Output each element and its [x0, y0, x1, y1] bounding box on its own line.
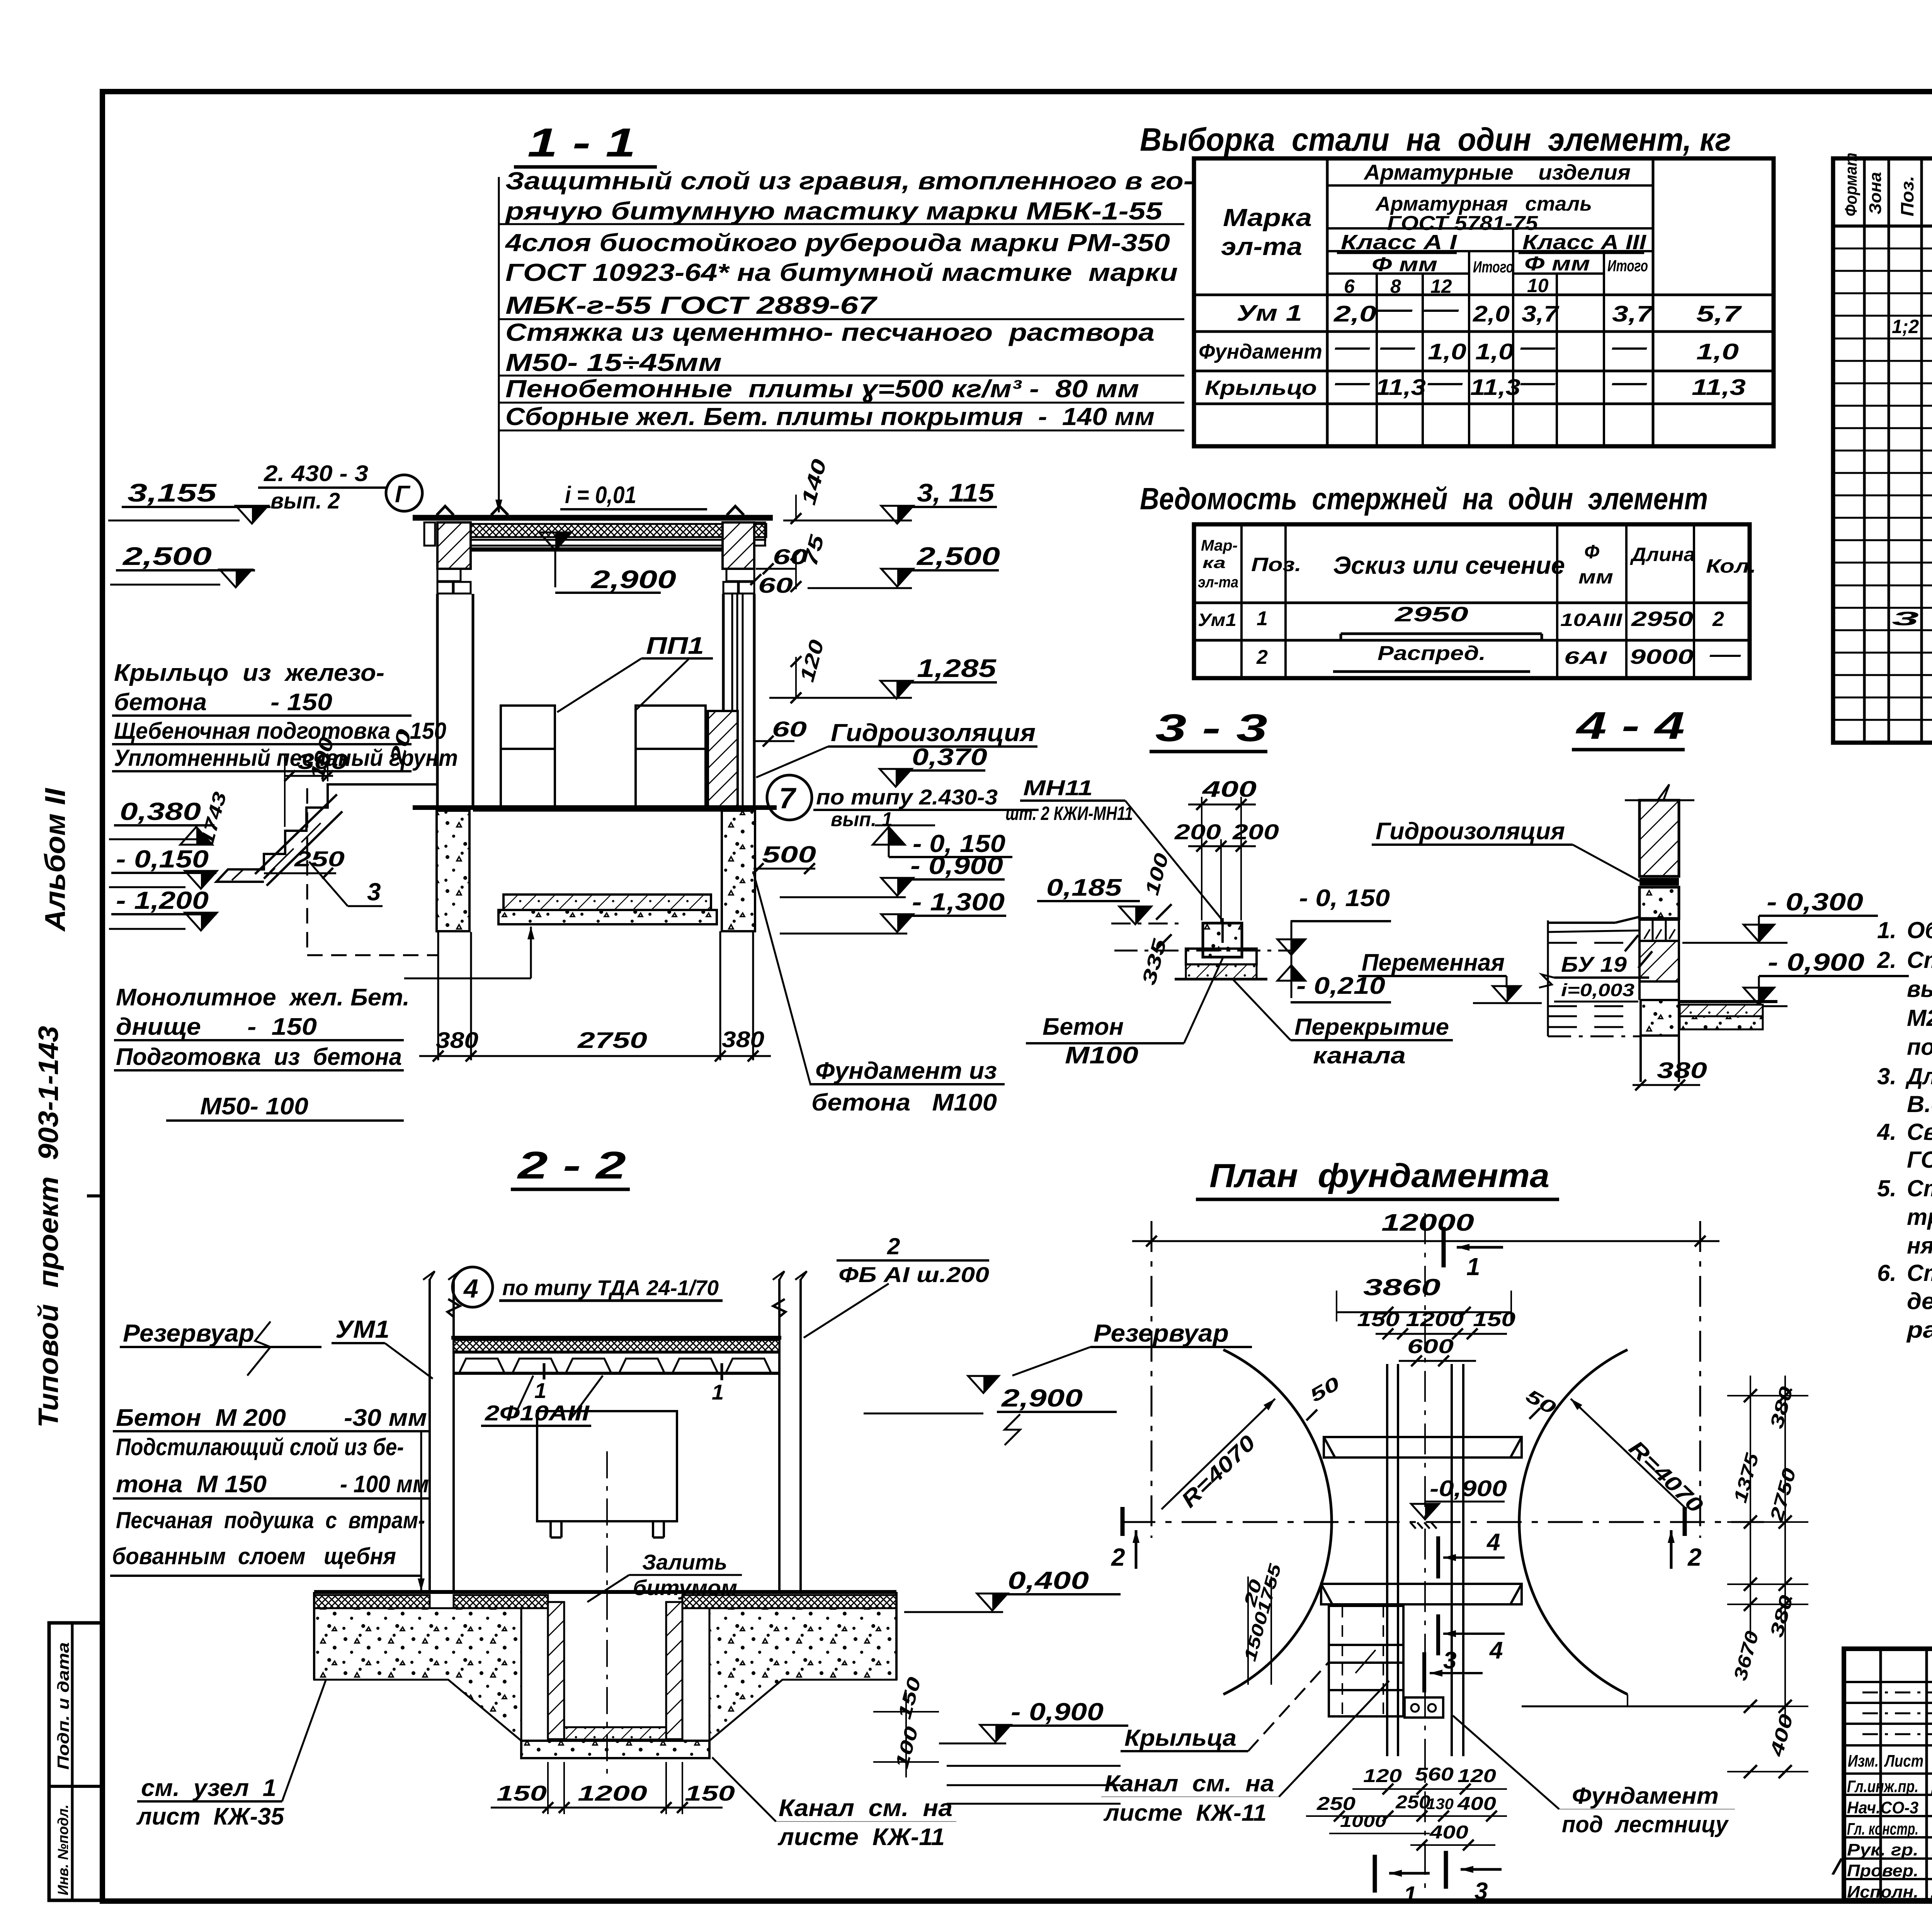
svg-text:- 0,300: - 0,300	[1767, 888, 1863, 916]
svg-text:Защитный слой из гравия, втопл: Защитный слой из гравия, втопленного в г…	[505, 167, 1193, 195]
elevation 2,900 (2-2)	[983, 1376, 999, 1393]
svg-text:120: 120	[1458, 1766, 1496, 1786]
svg-text:Монолитное жел. Бет.: Монолитное жел. Бет.	[116, 984, 410, 1011]
svg-text:листе КЖ-11: листе КЖ-11	[777, 1824, 945, 1850]
svg-text:Распред.: Распред.	[1378, 642, 1486, 665]
svg-text:выполнить из обыкновенного: выполнить из обыкновенного кирпича М75, …	[1907, 976, 1932, 1002]
svg-text:Нач.СО-3: Нач.СО-3	[1847, 1798, 1918, 1817]
svg-text:днище: днище	[116, 1014, 201, 1040]
svg-text:Фундамент из: Фундамент из	[815, 1058, 997, 1084]
svg-text:1: 1	[1403, 1882, 1417, 1908]
svg-text:0,185: 0,185	[1046, 874, 1122, 901]
svg-text:- 1,300: - 1,300	[912, 888, 1005, 916]
svg-text:—: —	[1423, 297, 1459, 322]
svg-text:2. 430 - 3: 2. 430 - 3	[264, 461, 368, 486]
node circle 7 with по типу 2.430-3	[767, 775, 812, 820]
right wall 1-1	[722, 594, 725, 806]
svg-text:4: 4	[463, 1274, 478, 1303]
svg-text:130: 130	[1427, 1796, 1454, 1813]
ribbed precast slabs	[454, 1351, 779, 1354]
svg-text:2,500: 2,500	[122, 542, 212, 570]
svg-text:2950: 2950	[1394, 603, 1468, 626]
svg-text:бованным слоем щебня: бованным слоем щебня	[112, 1543, 396, 1569]
right cornice (hatched)	[754, 522, 765, 546]
bottom slab 4-4 right	[1679, 1000, 1777, 1003]
svg-text:4слоя биостойкого рубероида ма: 4слоя биостойкого рубероида марки РМ-350	[505, 229, 1170, 257]
svg-text:3: 3	[1443, 1647, 1456, 1674]
svg-text:Лист: Лист	[1884, 1752, 1923, 1770]
svg-text:1.: 1.	[1877, 917, 1896, 943]
plan center line horizontal	[1121, 1521, 1764, 1523]
left ground edge	[313, 1592, 315, 1680]
svg-text:60: 60	[773, 544, 808, 569]
svg-text:1;2: 1;2	[1892, 316, 1919, 337]
svg-text:2: 2	[1712, 607, 1724, 631]
stairs foundation block	[1405, 1697, 1443, 1718]
svg-text:тона М 150: тона М 150	[116, 1471, 267, 1498]
svg-text:4 - 4: 4 - 4	[1575, 704, 1685, 747]
svg-text:Гл.инж.пр.: Гл.инж.пр.	[1847, 1777, 1918, 1796]
svg-text:- 0,150: - 0,150	[116, 845, 209, 873]
dash-dot marks in upper rows	[1862, 1692, 1932, 1694]
left wall 1-1	[436, 594, 439, 806]
waterproofing band (black)	[1639, 878, 1679, 886]
svg-text:Типовой проект 903-1-143: Типовой проект 903-1-143	[33, 1026, 64, 1428]
svg-text:План фундамента: План фундамента	[1209, 1157, 1549, 1194]
annotation leader vertical with arrow to roof	[498, 177, 500, 512]
svg-text:- 150: - 150	[247, 1014, 317, 1040]
svg-text:—: —	[1377, 297, 1413, 322]
svg-text:Сборные жел. Бет. плиты покрыт: Сборные жел. Бет. плиты покрытия - 140 м…	[505, 403, 1155, 430]
svg-text:по типу 2.430-3: по типу 2.430-3	[816, 785, 998, 809]
svg-text:М100: М100	[1065, 1042, 1138, 1069]
svg-text:150: 150	[1473, 1308, 1515, 1331]
svg-text:60: 60	[758, 573, 793, 597]
svg-text:600: 600	[1407, 1335, 1454, 1358]
floor concrete layer	[314, 1608, 521, 1741]
upper crossing slab	[1324, 1437, 1522, 1458]
embed block 3-3 (concrete)	[1203, 923, 1242, 957]
dashed excavation lines	[306, 788, 308, 955]
svg-text:Стальные конструкции окрасит: Стальные конструкции окрасить эмалью ПФ-…	[1907, 1175, 1932, 1201]
svg-text:Альбом II: Альбом II	[39, 787, 71, 932]
svg-text:Подстилающий слой из бе-: Подстилающий слой из бе-	[116, 1434, 404, 1461]
svg-text:4: 4	[1486, 1529, 1500, 1556]
svg-text:—: —	[1520, 370, 1556, 395]
svg-text:—: —	[1520, 335, 1556, 360]
svg-text:Стены камеры управления акку: Стены камеры управления аккумуляторных б…	[1907, 947, 1932, 973]
svg-text:11,3: 11,3	[1376, 375, 1426, 400]
svg-text:Итого: Итого	[1473, 258, 1514, 276]
svg-text:560: 560	[1415, 1764, 1454, 1785]
svg-text:Арматурные изделия: Арматурные изделия	[1363, 160, 1631, 184]
section marks bottom 1 and 3	[1373, 1855, 1377, 1893]
svg-text:подрезкой швов с внутренней: подрезкой швов с внутренней стороны клад…	[1907, 1034, 1932, 1060]
svg-text:деревянные изделия - масляной: деревянные изделия - масляной краской за…	[1907, 1288, 1932, 1314]
2-2 left wall	[429, 1279, 431, 1594]
svg-text:—: —	[1334, 335, 1370, 360]
svg-text:—: —	[1379, 335, 1415, 360]
small table horizontals	[1844, 1681, 1932, 1683]
svg-text:Фундамент: Фундамент	[1199, 340, 1322, 363]
svg-text:1000: 1000	[1340, 1812, 1387, 1831]
svg-text:—: —	[1334, 370, 1370, 395]
svg-text:БУ 19: БУ 19	[1561, 952, 1627, 976]
svg-text:—: —	[1427, 370, 1463, 395]
svg-text:0,370: 0,370	[912, 744, 987, 770]
svg-text:Г: Г	[395, 481, 411, 508]
hatched pier right interior	[708, 711, 738, 806]
svg-text:i=0,003: i=0,003	[1561, 980, 1635, 1000]
interior box right (tank support)	[636, 706, 706, 806]
svg-text:Щебеночная подготовка - 150: Щебеночная подготовка - 150	[114, 718, 446, 744]
svg-text:7: 7	[779, 782, 797, 815]
2-2 right wall	[778, 1279, 781, 1594]
svg-text:Переменная: Переменная	[1362, 949, 1505, 976]
section marks 4 4	[1436, 1536, 1440, 1578]
arrow to bottom slab	[404, 978, 531, 980]
porch rectangle (krыльцо) in plan	[1329, 1606, 1403, 1716]
svg-text:2950: 2950	[1631, 607, 1693, 631]
svg-text:Провер.: Провер.	[1847, 1861, 1918, 1880]
2-2 floor structure	[314, 1590, 896, 1594]
svg-text:Ум 1: Ум 1	[1236, 301, 1302, 326]
section mark 3 (mid)	[1422, 1652, 1426, 1692]
svg-text:Эскиз или сечение: Эскиз или сечение	[1333, 551, 1565, 579]
svg-text:- 0,900: - 0,900	[910, 852, 1003, 879]
svg-text:Ф мм: Ф мм	[1524, 253, 1590, 275]
svg-text:Для стальных конструкций пр: Для стальных конструкций применять сталь…	[1905, 1063, 1932, 1089]
svg-text:6: 6	[1344, 276, 1355, 297]
svg-text:Поз.: Поз.	[1897, 176, 1917, 216]
svg-text:Бетон М 200: Бетон М 200	[116, 1405, 286, 1431]
svg-text:1: 1	[1466, 1253, 1480, 1281]
title block outer	[1844, 1649, 1932, 1900]
svg-text:ФБ АI ш.200: ФБ АI ш.200	[838, 1262, 989, 1287]
svg-text:М25 с расшивкой швов с нар: М25 с расшивкой швов с наружной стороны …	[1907, 1005, 1932, 1031]
svg-text:200: 200	[1232, 820, 1279, 844]
svg-text:4: 4	[1489, 1637, 1503, 1664]
svg-text:150: 150	[685, 1781, 735, 1805]
svg-text:Гидроизоляция: Гидроизоляция	[831, 719, 1036, 747]
right elevations -0,150 -0,900 -1,300	[889, 827, 905, 845]
svg-text:3860: 3860	[1363, 1274, 1440, 1300]
circle 4 по типу ТДА 24-1/70	[452, 1267, 493, 1307]
svg-text:11,3: 11,3	[1692, 375, 1746, 400]
svg-text:лист КЖ-35: лист КЖ-35	[136, 1803, 284, 1830]
svg-text:—: —	[1611, 370, 1647, 395]
svg-text:МБК-г-55 ГОСТ 2889-67: МБК-г-55 ГОСТ 2889-67	[505, 291, 878, 319]
title block small table verticals	[1879, 1649, 1882, 1900]
table Выборка стали grid	[1194, 158, 1774, 446]
svg-text:Песчаная подушка с втрам-: Песчаная подушка с втрам-	[116, 1507, 425, 1533]
svg-text:ПП1: ПП1	[646, 633, 704, 659]
svg-text:бетона: бетона	[114, 689, 207, 716]
svg-text:листе КЖ-11: листе КЖ-11	[1103, 1800, 1267, 1826]
svg-text:1200: 1200	[1406, 1308, 1464, 1331]
svg-text:0,380: 0,380	[120, 798, 201, 825]
svg-text:150: 150	[497, 1781, 547, 1805]
svg-text:3.: 3.	[1877, 1063, 1896, 1089]
fold tick on left frame	[87, 1194, 104, 1197]
svg-text:Общие указания смотреть лис: Общие указания смотреть лист КЖ-1.	[1907, 917, 1932, 943]
bottom slab 1-1	[503, 895, 711, 910]
svg-text:11,3: 11,3	[1470, 375, 1520, 400]
svg-text:2,900: 2,900	[1001, 1384, 1083, 1412]
svg-text:2: 2	[1687, 1543, 1702, 1571]
svg-text:Ф: Ф	[1584, 541, 1599, 563]
svg-text:Резервуар: Резервуар	[1094, 1319, 1229, 1347]
svg-text:шт. 2 КЖИ-МН11: шт. 2 КЖИ-МН11	[1005, 803, 1133, 824]
svg-text:2: 2	[1111, 1543, 1125, 1571]
svg-text:6.: 6.	[1877, 1260, 1896, 1286]
svg-text:- 100 мм: - 100 мм	[340, 1471, 429, 1498]
svg-text:мм: мм	[1578, 566, 1613, 588]
svg-text:нять эмаль для наружных ра: нять эмаль для наружных работ.	[1907, 1233, 1932, 1259]
svg-text:Канал см. на: Канал см. на	[779, 1795, 952, 1821]
svg-text:ГОСТ 9467-75. Все неоговоренн: ГОСТ 9467-75. Все неоговоренные швы hш =…	[1907, 1147, 1932, 1173]
svg-text:Стены и потолки окрасить из: Стены и потолки окрасить известковой кра…	[1907, 1260, 1932, 1286]
svg-text:ГОСТ 10923-64* на битумной мас: ГОСТ 10923-64* на битумной мастике марки	[505, 259, 1178, 286]
svg-text:2,500: 2,500	[916, 542, 1000, 570]
tank center line	[606, 1451, 608, 1774]
section mark 1 (top)	[1442, 1227, 1446, 1267]
svg-text:8: 8	[1390, 276, 1401, 297]
svg-text:1,0: 1,0	[1428, 339, 1466, 364]
svg-text:Итого: Итого	[1607, 257, 1648, 275]
svg-text:1 - 1: 1 - 1	[527, 120, 636, 165]
svg-text:Уплотненный песчаный грунт: Уплотненный песчаный грунт	[114, 745, 458, 771]
tank arc right	[1519, 1350, 1628, 1694]
svg-text:380: 380	[436, 1028, 478, 1053]
lower crossing slab	[1321, 1584, 1522, 1604]
left cornice (hatched)	[424, 522, 435, 546]
svg-text:по типу ТДА 24-1/70: по типу ТДА 24-1/70	[502, 1276, 719, 1300]
svg-text:Длина: Длина	[1630, 544, 1695, 565]
brick course rows	[1639, 920, 1679, 941]
channel walls in plan	[1386, 1364, 1388, 1756]
svg-text:6АI: 6АI	[1564, 648, 1607, 668]
svg-text:9000: 9000	[1630, 645, 1694, 668]
svg-text:0,400: 0,400	[1008, 1566, 1089, 1594]
svg-text:1,0: 1,0	[1475, 339, 1514, 364]
svg-text:М50- 15÷45мм: М50- 15÷45мм	[505, 349, 722, 376]
svg-text:3, 115: 3, 115	[917, 478, 995, 507]
svg-text:3: 3	[1475, 1878, 1488, 1905]
entrance steps (крыльцо)	[216, 784, 437, 882]
right side dim chain	[1750, 1376, 1751, 1638]
svg-text:УМ1: УМ1	[335, 1315, 389, 1343]
svg-text:три слоя по слою грунта П: три слоя по слою грунта ПФ-020. Вне здан…	[1907, 1204, 1932, 1230]
pier extension lines	[437, 932, 439, 1060]
channel water lines left	[1548, 922, 1615, 924]
svg-text:Ум1: Ум1	[1198, 610, 1236, 630]
svg-text:МН11: МН11	[1023, 776, 1093, 800]
svg-text:эл-та: эл-та	[1221, 233, 1302, 260]
svg-text:250: 250	[294, 847, 345, 871]
svg-text:Мар-: Мар-	[1201, 537, 1238, 554]
svg-text:Крыльцо: Крыльцо	[1205, 376, 1317, 400]
svg-text:500: 500	[762, 842, 816, 867]
base slab 3-3	[1186, 949, 1257, 964]
svg-text:2750: 2750	[577, 1028, 647, 1053]
svg-text:вып. 2: вып. 2	[270, 488, 340, 514]
svg-text:Залить: Залить	[642, 1550, 727, 1574]
svg-text:1,0: 1,0	[1696, 339, 1739, 364]
2-2 roof slab with insulation	[451, 1336, 781, 1340]
svg-text:Ф мм: Ф мм	[1372, 253, 1437, 276]
svg-text:Исполн.: Исполн.	[1847, 1883, 1918, 1901]
svg-text:400: 400	[1457, 1794, 1497, 1814]
R=4070 labels	[1162, 1399, 1275, 1509]
foundation pier left (concrete)	[437, 811, 469, 931]
svg-text:Канал см. на: Канал см. на	[1104, 1770, 1274, 1796]
svg-text:Подготовка из бетона: Подготовка из бетона	[116, 1044, 402, 1070]
svg-text:2: 2	[887, 1233, 900, 1259]
table 2 grid	[1194, 524, 1750, 678]
svg-text:- 150: - 150	[270, 689, 332, 716]
svg-text:12: 12	[1430, 276, 1452, 297]
svg-text:3: 3	[367, 878, 381, 906]
svg-text:Фундамент: Фундамент	[1572, 1783, 1719, 1809]
svg-text:3: 3	[1892, 608, 1919, 629]
svg-text:Формат: Формат	[1842, 153, 1861, 216]
svg-text:Класс А I: Класс А I	[1341, 231, 1457, 254]
svg-text:Поз.: Поз.	[1251, 554, 1301, 575]
tank above 2-2	[537, 1411, 677, 1521]
svg-text:-30 мм: -30 мм	[344, 1405, 427, 1431]
svg-text:см. узел 1: см. узел 1	[141, 1775, 276, 1801]
svg-text:380: 380	[1657, 1058, 1707, 1083]
svg-text:2,0: 2,0	[1473, 301, 1510, 327]
section marks 2	[1121, 1507, 1125, 1536]
pit bottom slab	[521, 1741, 709, 1758]
svg-text:2 - 2: 2 - 2	[517, 1144, 626, 1187]
elevation 2,900 interior	[555, 532, 571, 550]
svg-text:Крыльцо из железо-: Крыльцо из железо-	[114, 660, 384, 686]
svg-text:Ведомость стержней на один: Ведомость стержней на один элемент	[1140, 481, 1708, 516]
interior box left (tank support)	[501, 706, 555, 806]
svg-text:Гидроизоляция: Гидроизоляция	[1376, 818, 1565, 845]
svg-text:вып. 1: вып. 1	[831, 808, 893, 831]
brick wall above (hatched)	[1639, 800, 1679, 876]
svg-text:М50- 100: М50- 100	[200, 1093, 308, 1120]
roof insulation cross-hatch band	[455, 524, 766, 537]
svg-text:1: 1	[712, 1380, 724, 1404]
svg-text:Изм.: Изм.	[1848, 1752, 1879, 1770]
svg-text:1: 1	[534, 1378, 546, 1403]
svg-text:3,155: 3,155	[128, 478, 217, 507]
svg-text:10: 10	[1527, 275, 1549, 296]
roof slab 1-1	[413, 515, 773, 521]
svg-text:Крыльца: Крыльца	[1124, 1725, 1236, 1751]
svg-text:—: —	[1709, 643, 1742, 666]
foundation pier right (concrete)	[722, 811, 755, 931]
svg-text:рячую битумную мастику марки М: рячую битумную мастику марки МБК-1-55	[505, 197, 1163, 225]
svg-text:400: 400	[1429, 1822, 1469, 1843]
svg-text:под лестницу: под лестницу	[1562, 1811, 1729, 1837]
svg-text:Резервуар: Резервуар	[123, 1319, 254, 1347]
svg-text:Выборка стали на один элем: Выборка стали на один элемент, кг	[1140, 121, 1731, 158]
svg-text:60: 60	[772, 717, 807, 741]
svg-text:3,7: 3,7	[1522, 301, 1560, 327]
svg-text:Стяжка из цементно- песчаного: Стяжка из цементно- песчаного раствора	[505, 318, 1155, 346]
svg-text:—: —	[1611, 335, 1647, 360]
tank arc left	[1223, 1350, 1332, 1694]
svg-text:раза.: раза.	[1906, 1317, 1932, 1343]
svg-text:Зона: Зона	[1866, 172, 1885, 214]
svg-text:10АIII: 10АIII	[1560, 610, 1623, 630]
svg-text:3 - 3: 3 - 3	[1155, 706, 1267, 750]
svg-text:150: 150	[1357, 1308, 1400, 1331]
svg-text:Кол.: Кол.	[1706, 555, 1756, 577]
svg-text:i = 0,01: i = 0,01	[565, 482, 636, 509]
svg-text:200: 200	[1174, 820, 1221, 844]
svg-text:400: 400	[1202, 777, 1257, 802]
svg-text:Рук. гр.: Рук. гр.	[1847, 1840, 1918, 1859]
foundation dots block 4-4	[1641, 1000, 1679, 1036]
svg-text:канала: канала	[1313, 1043, 1406, 1068]
svg-text:бетона М100: бетона М100	[811, 1089, 997, 1116]
svg-text:2,0: 2,0	[1333, 301, 1376, 327]
svg-text:В.ст.3 кп2 ГОСТ 380-71*.: В.ст.3 кп2 ГОСТ 380-71*.	[1907, 1091, 1932, 1117]
svg-text:- 0,900: - 0,900	[1011, 1698, 1104, 1726]
svg-text:380: 380	[722, 1027, 764, 1052]
svg-text:2,900: 2,900	[590, 565, 676, 594]
svg-text:12000: 12000	[1381, 1209, 1474, 1236]
svg-text:1,285: 1,285	[917, 654, 997, 682]
svg-text:5.: 5.	[1877, 1175, 1896, 1201]
left margin stamp column	[49, 1623, 103, 1900]
specification table grid	[1833, 158, 1932, 743]
channel pit walls	[548, 1602, 564, 1739]
svg-text:5,7: 5,7	[1696, 301, 1742, 327]
svg-text:- 0,900: - 0,900	[1768, 948, 1864, 976]
svg-text:Пенобетонные плиты ɣ=500 кг/м: Пенобетонные плиты ɣ=500 кг/м³ - 80 мм	[505, 375, 1139, 403]
svg-text:1: 1	[1257, 607, 1268, 630]
svg-text:- 0, 150: - 0, 150	[1299, 885, 1390, 912]
svg-text:Инв. №подл.: Инв. №подл.	[55, 1804, 71, 1895]
svg-text:120: 120	[1363, 1766, 1402, 1786]
svg-text:эл-та: эл-та	[1198, 574, 1238, 591]
svg-text:4.: 4.	[1877, 1119, 1896, 1145]
svg-text:3,7: 3,7	[1612, 301, 1654, 327]
foundation block (concrete)	[1639, 887, 1679, 918]
svg-text:-0,900: -0,900	[1430, 1476, 1507, 1501]
svg-text:1200: 1200	[578, 1781, 647, 1805]
svg-text:2: 2	[1256, 646, 1268, 668]
svg-text:Перекрытие: Перекрытие	[1294, 1014, 1449, 1040]
wall top hooks 2-2	[447, 1299, 460, 1338]
svg-text:Класс А III: Класс А III	[1522, 231, 1646, 254]
svg-text:Марка: Марка	[1223, 204, 1312, 231]
svg-text:Сварку выполнить электрода: Сварку выполнить электродами типа Э-42	[1907, 1119, 1932, 1145]
svg-text:250: 250	[1316, 1794, 1356, 1814]
svg-text:ка: ка	[1202, 554, 1226, 571]
svg-text:- 1,200: - 1,200	[116, 886, 209, 914]
floor line 1-1	[413, 805, 777, 810]
svg-text:Бетон: Бетон	[1043, 1014, 1124, 1040]
svg-text:2.: 2.	[1877, 947, 1896, 973]
svg-text:Гл. констр.: Гл. констр.	[1847, 1820, 1918, 1838]
svg-text:250: 250	[1395, 1792, 1430, 1813]
svg-text:Подп. и дата: Подп. и дата	[54, 1642, 72, 1770]
lower wall (hatched)	[1639, 941, 1679, 981]
svg-text:битумом: битумом	[633, 1575, 737, 1600]
